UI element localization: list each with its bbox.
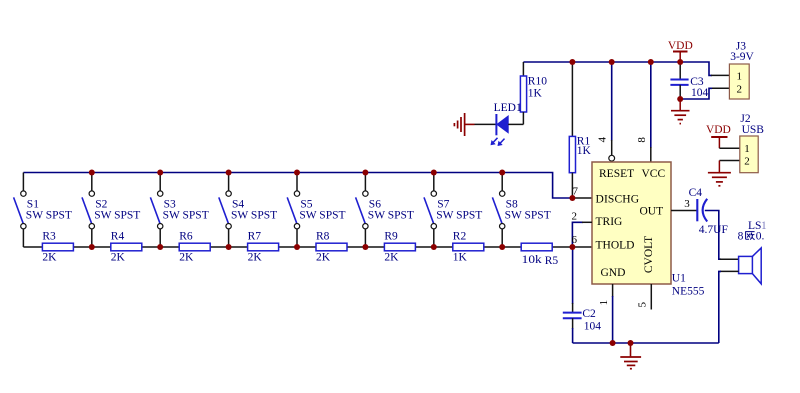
wire pin4 xyxy=(611,62,613,155)
wire LED to R10 xyxy=(508,123,523,125)
resistor R9 xyxy=(384,230,415,263)
resistor R3 xyxy=(42,230,73,263)
svg-text:1K: 1K xyxy=(577,145,592,157)
junction ground on bottom rail xyxy=(628,340,634,346)
pin number 8 xyxy=(636,137,648,143)
capacitor C2 xyxy=(563,247,602,343)
svg-text:U1: U1 xyxy=(672,273,686,285)
svg-text:2K: 2K xyxy=(316,251,331,263)
connector J3 xyxy=(729,40,754,99)
capacitor C4 xyxy=(689,187,728,236)
op-amp U1 NE555 body xyxy=(592,162,671,284)
resistor R8 xyxy=(316,230,347,263)
svg-text:S7: S7 xyxy=(437,198,449,210)
wire TRIG pin2 xyxy=(572,222,592,247)
svg-text:2K: 2K xyxy=(111,251,126,263)
ground (bottom rail) xyxy=(620,343,641,369)
switch S1 xyxy=(14,173,72,248)
junction on top bus xyxy=(157,170,163,176)
junction on top bus xyxy=(89,170,95,176)
junction on top bus xyxy=(431,170,437,176)
svg-text:0.: 0. xyxy=(756,231,765,243)
svg-text:J2: J2 xyxy=(740,113,750,125)
resistor R6 xyxy=(179,230,210,263)
junction on resistor chain xyxy=(226,244,232,250)
svg-text:NE555: NE555 xyxy=(672,285,705,297)
svg-text:LED1: LED1 xyxy=(494,102,522,114)
svg-text:VDD: VDD xyxy=(706,124,731,136)
pin number 7 xyxy=(572,186,578,198)
wire CVOLT pin5 (open) xyxy=(650,284,652,310)
svg-text:GND: GND xyxy=(601,267,626,279)
svg-text:1: 1 xyxy=(598,300,610,306)
pin number 4 xyxy=(596,137,608,143)
svg-text:C4: C4 xyxy=(689,187,703,199)
resistor R4 xyxy=(111,230,142,263)
svg-text:SW SPST: SW SPST xyxy=(231,210,277,222)
svg-text:R10: R10 xyxy=(528,76,547,88)
wire J3 pin2 to ground node xyxy=(680,88,729,99)
switch S5 xyxy=(287,173,345,248)
junction on resistor chain xyxy=(89,244,95,250)
label LS1 xyxy=(748,220,767,232)
svg-text:R7: R7 xyxy=(248,230,262,242)
svg-text:1: 1 xyxy=(744,143,750,155)
svg-text:C2: C2 xyxy=(582,308,596,320)
svg-text:SW SPST: SW SPST xyxy=(299,210,345,222)
svg-text:1K: 1K xyxy=(528,88,543,100)
svg-text:OUT: OUT xyxy=(640,206,664,218)
LED LED1 xyxy=(491,102,522,146)
junction TRIG/THOLD xyxy=(569,244,575,250)
power VDD (J2) xyxy=(706,124,731,148)
svg-text:THOLD: THOLD xyxy=(596,239,635,251)
ground (LED, rotated left) xyxy=(454,113,474,136)
wire speaker bottom xyxy=(719,271,739,343)
ground (J2) xyxy=(708,161,731,186)
junction on resistor chain xyxy=(499,244,505,250)
svg-text:C3: C3 xyxy=(690,76,704,88)
junction on top bus xyxy=(362,170,368,176)
junction C3 bottom / J3 pin2 / ground xyxy=(677,96,683,102)
junction R1 top on VCC rail xyxy=(569,59,575,65)
wire switch top bus xyxy=(23,173,592,199)
svg-text:2: 2 xyxy=(744,156,750,168)
svg-text:2: 2 xyxy=(737,83,743,95)
wire pin8 xyxy=(650,62,652,162)
wire bottom ground rail xyxy=(573,342,719,344)
wire J2 pin2 to ground xyxy=(719,160,739,162)
junction pin8 rail xyxy=(648,59,654,65)
svg-text:RESET: RESET xyxy=(599,168,634,180)
junction on top bus xyxy=(294,170,300,176)
junction pin4 rail xyxy=(609,59,615,65)
label NE555 xyxy=(672,285,705,297)
resistor R5 xyxy=(521,243,558,267)
svg-text:3: 3 xyxy=(684,198,690,210)
svg-text:S2: S2 xyxy=(95,198,107,210)
switch S8 xyxy=(492,173,550,248)
pin number 2 xyxy=(571,211,577,223)
label U1 xyxy=(672,273,686,285)
svg-text:S8: S8 xyxy=(506,198,518,210)
power VDD (main) xyxy=(668,40,693,62)
svg-text:SW SPST: SW SPST xyxy=(94,210,140,222)
svg-text:8: 8 xyxy=(738,231,744,243)
svg-text:4.7UF: 4.7UF xyxy=(699,224,728,236)
junction VDD rail xyxy=(677,59,683,65)
svg-text:USB: USB xyxy=(742,124,765,136)
junction on top bus xyxy=(499,170,505,176)
svg-text:2K: 2K xyxy=(384,251,399,263)
svg-text:S3: S3 xyxy=(164,198,176,210)
junction GND pin on rail xyxy=(610,340,616,346)
svg-text:SW SPST: SW SPST xyxy=(368,210,414,222)
svg-text:2K: 2K xyxy=(248,251,263,263)
resistor R1 xyxy=(569,62,591,198)
wire GND pin1 xyxy=(612,284,614,343)
svg-text:VCC: VCC xyxy=(642,168,666,180)
svg-text:5: 5 xyxy=(637,301,649,307)
wire resistor chain xyxy=(23,246,592,248)
switch S6 xyxy=(356,173,414,248)
junction on resistor chain xyxy=(294,244,300,250)
ground (below C3) xyxy=(671,99,690,124)
J3 pin number 2 xyxy=(737,83,743,95)
switch S7 xyxy=(424,173,482,248)
svg-text:3-9V: 3-9V xyxy=(730,51,754,63)
svg-text:S4: S4 xyxy=(232,198,244,210)
svg-text:8: 8 xyxy=(636,137,648,143)
svg-text:1K: 1K xyxy=(453,251,468,263)
svg-text:R8: R8 xyxy=(316,230,330,242)
junction on resistor chain xyxy=(362,244,368,250)
svg-text:SW SPST: SW SPST xyxy=(505,210,551,222)
pin 4 inverting circle xyxy=(609,155,615,161)
junction on resistor chain xyxy=(157,244,163,250)
junction R1 bottom / pin7 xyxy=(569,195,575,201)
svg-text:2K: 2K xyxy=(42,251,57,263)
svg-text:R2: R2 xyxy=(453,230,467,242)
J2 pin number 2 xyxy=(744,156,750,168)
svg-text:2: 2 xyxy=(571,211,577,223)
svg-text:S5: S5 xyxy=(300,198,312,210)
resistor R10 xyxy=(520,62,547,124)
switch S3 xyxy=(150,173,208,248)
svg-text:VDD: VDD xyxy=(668,40,693,52)
svg-text:SW SPST: SW SPST xyxy=(26,210,72,222)
svg-text:SW SPST: SW SPST xyxy=(163,210,209,222)
svg-text:1: 1 xyxy=(737,71,743,83)
switch S4 xyxy=(219,173,277,248)
J2 pin number 1 xyxy=(744,143,750,155)
pin number 3 xyxy=(684,198,690,210)
svg-text:S6: S6 xyxy=(369,198,381,210)
pin number 6 xyxy=(572,234,578,246)
switch S2 xyxy=(82,173,140,248)
svg-text:104: 104 xyxy=(584,321,602,333)
svg-text:CVOLT: CVOLT xyxy=(643,236,655,273)
resistor R2 xyxy=(453,230,484,263)
pin number 5 xyxy=(637,301,649,307)
svg-text:2K: 2K xyxy=(179,251,194,263)
svg-text:R5: R5 xyxy=(545,255,559,267)
junction on top bus xyxy=(226,170,232,176)
svg-text:R4: R4 xyxy=(111,230,125,242)
svg-text:10k: 10k xyxy=(522,254,542,266)
svg-text:TRIG: TRIG xyxy=(596,216,623,228)
svg-text:S1: S1 xyxy=(27,198,39,210)
label 8ohm value xyxy=(738,231,765,243)
connector J2 xyxy=(740,113,765,173)
svg-text:R6: R6 xyxy=(179,230,193,242)
J3 pin number 1 xyxy=(737,71,743,83)
resistor R7 xyxy=(248,230,279,263)
wire VCC top rail xyxy=(523,62,729,75)
junction on resistor chain xyxy=(431,244,437,250)
wire J2 pin1 to VDD xyxy=(719,147,739,149)
svg-text:R3: R3 xyxy=(42,230,56,242)
capacitor C3 xyxy=(670,62,708,99)
svg-text:DISCHG: DISCHG xyxy=(596,194,640,206)
pin number 1 xyxy=(598,300,610,306)
svg-text:4: 4 xyxy=(596,137,608,143)
svg-text:SW SPST: SW SPST xyxy=(436,210,482,222)
wire ground to LED xyxy=(475,123,497,125)
wire OUT pin3 xyxy=(671,210,697,212)
svg-text:104: 104 xyxy=(691,87,709,99)
speaker LS1 xyxy=(739,248,762,284)
svg-text:R9: R9 xyxy=(384,230,398,242)
wire C4 to speaker top xyxy=(705,211,739,260)
